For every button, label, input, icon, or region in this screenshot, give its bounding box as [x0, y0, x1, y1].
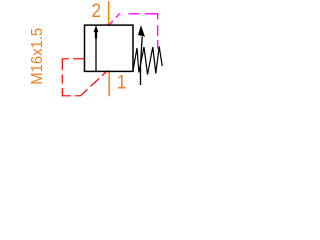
port 1 line: [108, 71, 110, 96]
valve body box: [85, 25, 134, 71]
adjustment arrow head: [138, 25, 145, 36]
drain line (red dashed): [62, 59, 108, 96]
flow arrow shaft: [95, 33, 97, 72]
pilot line (magenta dashed): [109, 14, 158, 49]
flow arrow head: [94, 25, 99, 38]
svg-text:2: 2: [92, 0, 102, 21]
port 2 line: [108, 1, 110, 25]
adjustment arrow shaft: [141, 37, 143, 86]
spring: [133, 47, 162, 75]
svg-text:1: 1: [117, 70, 127, 92]
svg-text:M16x1.5: M16x1.5: [29, 28, 46, 85]
